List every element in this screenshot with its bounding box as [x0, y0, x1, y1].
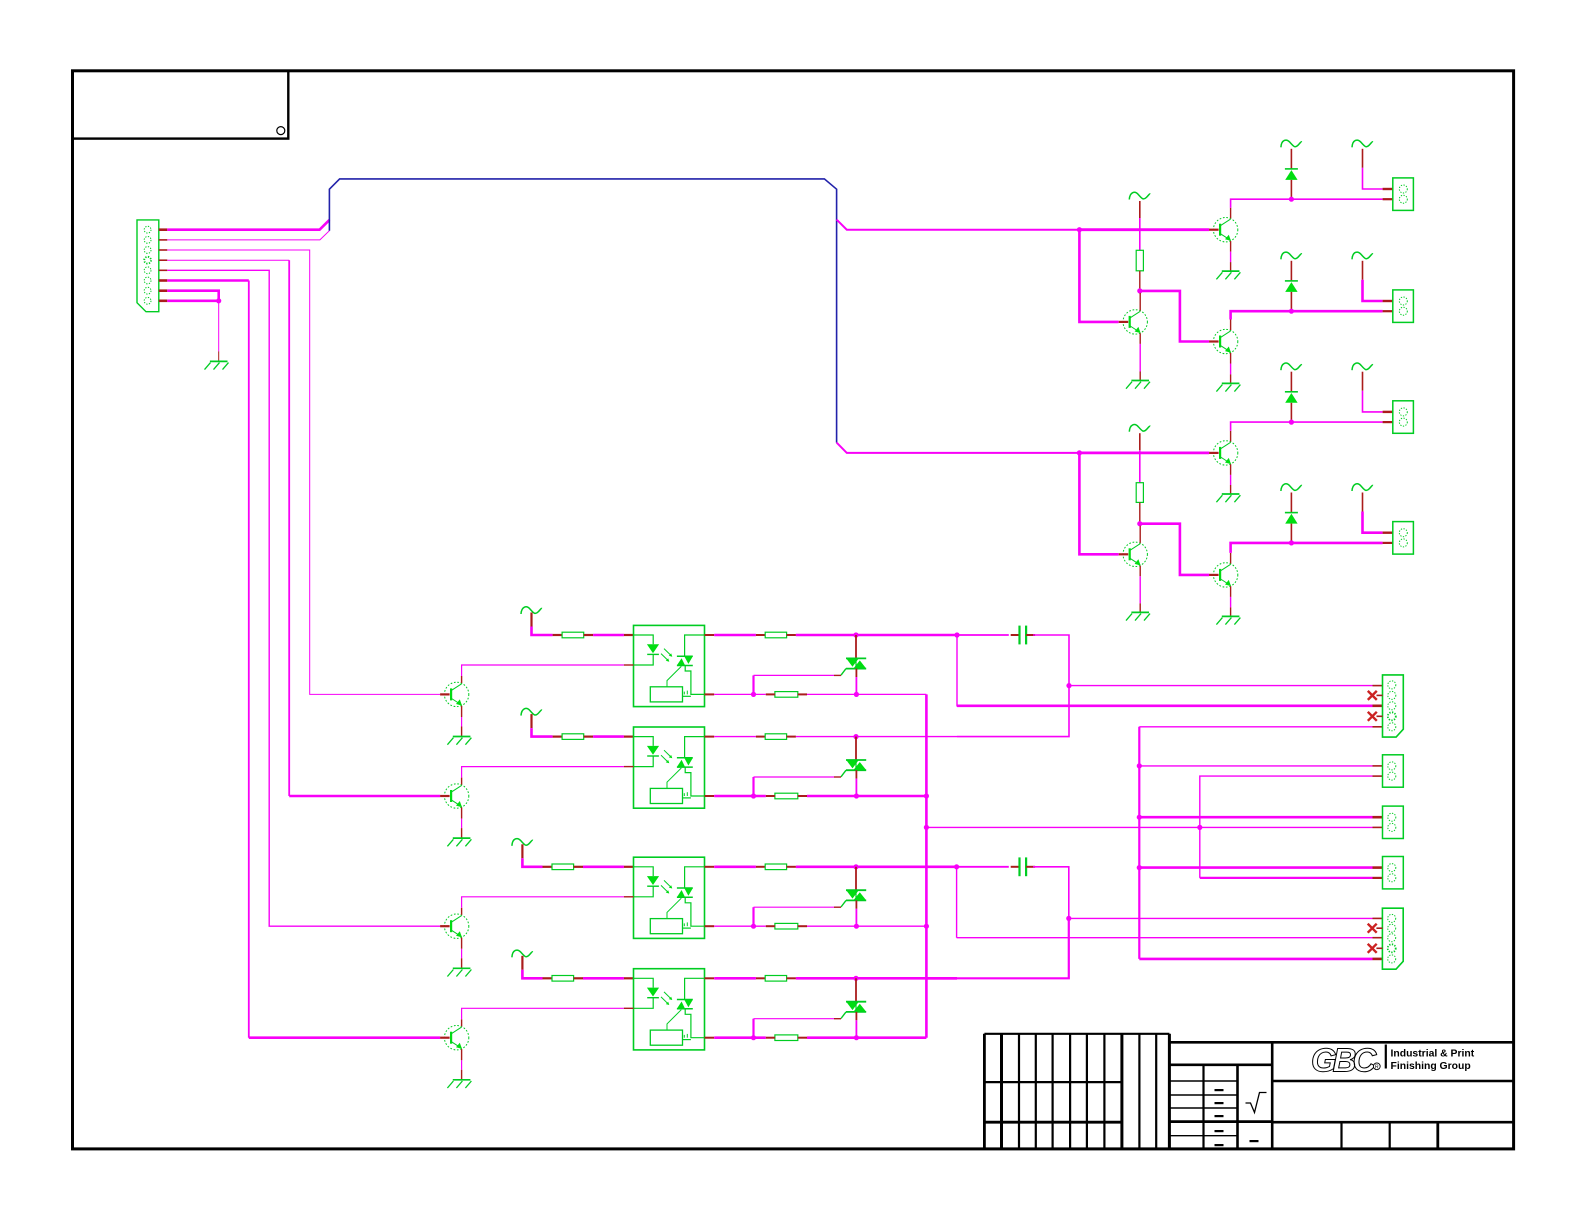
ground under QA1 — [1222, 493, 1240, 495]
triac — [855, 867, 857, 890]
wire QA2 emitter to ground — [1139, 566, 1141, 577]
junction hot conn P4 pin1 — [1137, 865, 1142, 870]
wire cap to vertical ch3 — [1033, 867, 1069, 919]
power symbol opto input — [521, 708, 542, 715]
opto internal LED — [634, 635, 654, 644]
series resistor output row — [765, 864, 786, 870]
connector P1 (5-pin) — [1383, 675, 1404, 737]
wire J1 pin1 to blue net — [167, 220, 329, 230]
no-connect X P5 pin4 — [1368, 944, 1377, 953]
wire J1 pin5 down — [167, 270, 440, 926]
transistor Q opto driver — [444, 682, 468, 706]
wire resistor to triac junction — [787, 736, 796, 738]
wire opto output row — [705, 736, 715, 738]
wire QB1 emitter to ground — [1230, 586, 1232, 597]
capacitor — [1011, 634, 1020, 636]
wire QB1 collector to output row — [1230, 320, 1232, 331]
junction triac top — [853, 864, 858, 869]
square root symbol — [1246, 1093, 1267, 1113]
stub P2 pin2 — [1373, 775, 1383, 777]
wire to connector P3 pin1 — [1139, 816, 1372, 819]
junction bus node — [1077, 227, 1082, 232]
optocoupler U box — [634, 969, 705, 1050]
wire bus to transistor QA2 base — [1079, 453, 1118, 554]
connector 2-pin output — [1393, 290, 1414, 323]
wire triac bottom to bottom row — [855, 770, 857, 778]
title block check-mark dashes — [1215, 1089, 1259, 1146]
wire ch1 bottom row corner down (big vertical) — [925, 694, 928, 1037]
wire triac bottom to bottom row — [855, 1012, 857, 1020]
opto zero-cross output line — [683, 1039, 691, 1041]
wire squiggle to resistor — [1139, 201, 1141, 218]
power symbol for connector — [1352, 252, 1373, 259]
input resistor — [562, 632, 584, 638]
power symbol for connector — [1352, 363, 1373, 370]
wire QA1 collector to output row — [1230, 208, 1232, 219]
opto light arrows — [664, 649, 672, 656]
triac gate wire — [834, 1018, 841, 1020]
wire J1 pin3 down — [167, 250, 440, 694]
neutral rail to right — [926, 826, 1199, 828]
ground under QB1 — [1222, 382, 1240, 384]
opto gate diagonal to zero-cross circuit — [667, 666, 681, 686]
wire QB1 emitter to ground — [1230, 353, 1232, 364]
svg-text:R: R — [1375, 1065, 1379, 1071]
wire J1 pin8 — [167, 299, 218, 302]
series resistor output row — [765, 632, 786, 638]
power symbol for connector — [1352, 484, 1373, 491]
junction gate loop — [751, 793, 756, 798]
connector P4 (2-pin) — [1383, 857, 1404, 889]
input resistor — [562, 734, 584, 740]
wire QA2 emitter to ground — [1139, 333, 1141, 344]
opto zero-cross box — [650, 1030, 682, 1045]
wire QA2 collector to junction — [1139, 526, 1141, 543]
wire output row to connector — [1291, 198, 1382, 200]
opto light arrows — [664, 880, 672, 887]
ground under Q — [453, 967, 471, 969]
no-connect X P1 pin2 — [1368, 691, 1377, 700]
no-connect X P1 pin4 — [1368, 712, 1377, 721]
junction ch3 gate rail — [924, 924, 929, 929]
wire output row to connector — [1291, 542, 1382, 545]
J1 pin stubs — [159, 228, 168, 231]
wire resistor to opto — [574, 977, 583, 979]
opto zero-cross output line — [683, 797, 691, 799]
opto internal LED — [634, 867, 654, 876]
wire opto output row — [705, 977, 715, 979]
opto triac to output pin — [685, 897, 704, 926]
svg-text:Industrial & Print: Industrial & Print — [1391, 1049, 1475, 1060]
triac gate wire — [834, 674, 841, 676]
ground under Q — [453, 837, 471, 839]
wire power to connector pin 1 — [1362, 372, 1364, 391]
transistor QA2 (inner) — [1123, 542, 1147, 566]
resistor pull-up — [1136, 250, 1143, 270]
junction bus node — [1077, 450, 1082, 455]
optocoupler U box — [634, 625, 705, 706]
ground under QB1 — [1222, 615, 1240, 617]
wire power to connector pin 1 — [1362, 261, 1364, 280]
bus wire upper (blue to transistor Q1 base) — [837, 220, 1080, 230]
neutral rail to connector P3 pin2 — [1200, 826, 1373, 828]
junction cap branch ch1 — [954, 632, 959, 637]
wire J1 pin7 to pin8 net — [167, 291, 218, 301]
power symbol opto input — [521, 607, 542, 614]
triac — [855, 635, 857, 658]
bus wire lower (blue to transistor Q4 base) — [837, 443, 1079, 453]
wire resistor to junction — [1139, 502, 1141, 523]
connector 2-pin output — [1393, 401, 1414, 434]
power symbol above LED — [1281, 363, 1302, 370]
opto internal LED — [634, 737, 654, 746]
opto internal triac — [685, 737, 705, 758]
wire resistor to junction — [1139, 271, 1141, 291]
wire opto output row — [705, 634, 715, 636]
wire opto bottom row — [705, 925, 715, 927]
input resistor — [552, 864, 574, 870]
junction resistor node — [1137, 521, 1142, 526]
junction triac top — [853, 734, 858, 739]
wire power to input resistor — [530, 613, 532, 627]
wire opto bottom row — [705, 693, 715, 695]
connector 2-pin output — [1393, 522, 1414, 555]
junction hot conn P3 pin1 — [1137, 815, 1142, 820]
wire Q collector to opto pin 2 — [461, 1019, 463, 1026]
wire resistor to triac junction — [787, 977, 796, 979]
wire power to input resistor — [530, 714, 532, 728]
opto light arrows — [664, 750, 672, 757]
junction triac bottom — [854, 692, 859, 697]
transistor Q opto driver — [444, 784, 468, 808]
resistor pull-up — [1136, 483, 1143, 503]
LED indicator — [1290, 149, 1292, 169]
junction conn P5 pin1 branch — [1066, 916, 1071, 921]
junction gate loop — [751, 692, 756, 697]
wire cap ch1 row — [957, 634, 1009, 636]
wire QA1 emitter to ground — [1230, 241, 1232, 252]
wire opto bottom row — [705, 795, 715, 797]
opto gate diagonal to zero-cross circuit — [667, 768, 681, 788]
junction hot conn P2 pin1 — [1137, 763, 1142, 768]
opto light arrows — [664, 992, 672, 999]
opto zero-cross output line — [683, 927, 691, 929]
power symbol opto input — [512, 839, 533, 846]
wire power to input resistor — [521, 844, 523, 858]
power symbol above LED — [1281, 484, 1302, 491]
series resistor bottom row — [775, 923, 798, 929]
transistor QB1 (outer lower) — [1213, 329, 1237, 353]
input resistor — [552, 976, 574, 982]
transistor Q opto driver — [444, 914, 468, 938]
wire power to connector pin 1 — [1362, 149, 1364, 168]
series resistor bottom row — [775, 1035, 798, 1041]
transistor QA1 (outer upper) — [1213, 441, 1237, 465]
connector P2 (2-pin) — [1383, 755, 1404, 787]
wire to connector P5 pin1 — [1069, 917, 1373, 919]
wire resistor to triac junction — [787, 634, 796, 636]
series resistor bottom row — [775, 793, 798, 799]
opto internal triac — [685, 635, 705, 656]
junction conn P1 pin1 branch — [1066, 683, 1071, 688]
junction resistor node — [1137, 288, 1142, 293]
ground under QA2 — [1131, 611, 1149, 613]
wire resistor to opto — [584, 735, 593, 737]
junction neutral rail — [924, 825, 929, 830]
wire bottom row to right — [807, 925, 926, 927]
connector P3 (2-pin) — [1383, 806, 1404, 838]
opto zero-cross output line — [683, 695, 691, 697]
wire ch4 row segment — [926, 977, 957, 980]
wire hot vertical to connector P5 pin5 — [1139, 958, 1372, 961]
wire bottom row to right — [807, 795, 926, 798]
opto internal triac — [685, 867, 705, 888]
title box top-left — [73, 71, 289, 139]
wire gate loop down — [752, 1019, 754, 1038]
triac — [855, 978, 857, 1001]
wire output row to connector — [1291, 421, 1382, 423]
wire hot vertical right — [1138, 727, 1140, 959]
svg-text:GBC: GBC — [1311, 1042, 1378, 1079]
ground under Q — [453, 736, 471, 738]
connector P5 (5-pin) — [1382, 908, 1403, 969]
optocoupler U box — [634, 727, 705, 808]
wire opto output row — [705, 866, 715, 868]
wire cap ch3 row — [957, 866, 1009, 868]
ground under J1 — [210, 360, 228, 362]
power symbol above LED — [1281, 140, 1302, 147]
wire bus to transistor QA2 base — [1079, 230, 1118, 322]
connector 2-pin output — [1393, 178, 1414, 211]
wire output row to connector — [1291, 310, 1382, 313]
opto triac to output pin — [685, 666, 704, 695]
wire vertical to ch4 row — [957, 918, 1069, 978]
junction triac bottom — [854, 1035, 859, 1040]
wire resistor to triac junction — [787, 866, 796, 868]
junction triac top — [853, 632, 858, 637]
opto internal triac — [685, 978, 705, 999]
wire triac bottom to bottom row — [855, 900, 857, 908]
wire resistor to opto — [584, 634, 593, 636]
logo divider bar — [1385, 1045, 1387, 1069]
wire J1 pin4 down — [167, 259, 289, 261]
wire conn P2 pin2 vertical — [1200, 776, 1373, 878]
power symbol above LED — [1281, 252, 1302, 259]
wire branch down ch3 — [956, 867, 958, 938]
LED indicator — [1290, 261, 1292, 281]
power symbol opto input — [512, 950, 533, 957]
connector J1 — [137, 220, 159, 312]
junction LED to output row — [1289, 540, 1294, 545]
transistor QA1 (outer upper) — [1213, 218, 1237, 242]
junction neutral vertical — [1197, 825, 1202, 830]
triac gate wire — [834, 906, 841, 908]
wire QA2 collector to junction — [1139, 293, 1141, 311]
wire pin8 node to ground — [218, 301, 220, 352]
transistor Q opto driver — [444, 1026, 468, 1050]
wire to connector P5 pin3 — [957, 937, 1373, 939]
wire opto bottom row — [705, 1037, 715, 1039]
wire triac bottom to bottom row — [855, 669, 857, 677]
opto gate diagonal to zero-cross circuit — [667, 898, 681, 918]
wire bottom row to right — [807, 693, 926, 695]
transistor QA2 (inner) — [1123, 310, 1147, 334]
series resistor output row — [765, 734, 786, 740]
series resistor output row — [765, 976, 786, 982]
wire to connector P1 pin1 — [1069, 685, 1373, 687]
LED indicator — [1290, 493, 1292, 513]
blue net wire — [329, 179, 836, 443]
opto zero-cross box — [650, 687, 682, 702]
triac gate wire — [834, 776, 841, 778]
capacitor — [1011, 866, 1020, 868]
wire gate loop down — [752, 777, 754, 796]
wire to connector P4 pin2 — [1200, 877, 1373, 879]
wire resistor to opto — [574, 866, 583, 868]
junction cap branch ch3 — [954, 864, 959, 869]
power symbol for connector — [1352, 140, 1373, 147]
junction ch2 bottom rail — [924, 793, 929, 798]
wire Q emitter to ground — [461, 706, 463, 717]
wire squiggle to resistor — [1139, 433, 1141, 450]
no-connect X P5 pin2 — [1368, 924, 1377, 933]
junction gate loop — [751, 924, 756, 929]
ground under QA2 — [1131, 380, 1149, 382]
wire QA1 emitter to ground — [1230, 464, 1232, 475]
wire gate loop down — [752, 907, 754, 926]
wire Q emitter to ground — [461, 1049, 463, 1060]
optocoupler U box — [634, 857, 705, 938]
wire Q emitter to ground — [461, 807, 463, 818]
wire Q collector to opto pin 2 — [461, 676, 463, 683]
junction triac bottom — [854, 924, 859, 929]
power symbol (squiggle) above resistor — [1129, 192, 1150, 199]
power symbol (squiggle) above resistor — [1129, 425, 1150, 432]
opto triac to output pin — [685, 767, 704, 796]
junction LED to output row — [1289, 309, 1294, 314]
wire conn P1 pin5 to hot vertical — [1139, 726, 1372, 728]
junction triac bottom — [854, 793, 859, 798]
wire to connector P2 pin1 — [1139, 765, 1372, 767]
triac — [855, 737, 857, 760]
wire gate loop down — [752, 675, 754, 694]
wire bottom row to right — [807, 1036, 926, 1039]
wire power to input resistor — [521, 956, 523, 970]
wire QA1 collector to output row — [1230, 431, 1232, 442]
opto internal LED — [634, 978, 654, 987]
wire J1 pin6 down — [167, 279, 249, 282]
LED indicator — [1290, 372, 1292, 392]
opto zero-cross box — [650, 919, 682, 934]
opto triac to output pin — [685, 1009, 704, 1038]
junction pin8 node — [216, 298, 221, 303]
series resistor bottom row — [775, 692, 798, 698]
svg-text:Finishing Group: Finishing Group — [1391, 1061, 1471, 1072]
transistor QB1 (outer lower) — [1213, 563, 1237, 587]
wire junction to transistor QB base — [1140, 524, 1209, 575]
wire J1 pin2 to blue net — [167, 231, 329, 240]
junction LED to output row — [1289, 420, 1294, 425]
wire branch down to rail — [957, 635, 1069, 706]
opto gate diagonal to zero-cross circuit — [667, 1010, 681, 1030]
junction gate loop — [751, 1035, 756, 1040]
wire power to connector pin 1 — [1362, 493, 1364, 512]
ground under QA1 — [1222, 270, 1240, 272]
wire Q emitter to ground — [461, 938, 463, 949]
junction LED to output row — [1289, 197, 1294, 202]
rail to connector P1 pin3 — [957, 704, 1373, 707]
title block table — [984, 1034, 1513, 1149]
junction triac top — [853, 976, 858, 981]
wire Q collector to opto pin 2 — [461, 778, 463, 785]
wire to connector P4 pin1 — [1139, 866, 1372, 869]
wire junction to transistor QB base — [1140, 291, 1209, 342]
wire Q collector to opto pin 2 — [461, 908, 463, 915]
wire cap to vertical ch1 — [1033, 635, 1069, 686]
ground under Q — [453, 1079, 471, 1081]
wire QB1 collector to output row — [1230, 553, 1232, 564]
wire vertical to ch2 row — [957, 686, 1069, 737]
opto zero-cross box — [650, 788, 682, 803]
